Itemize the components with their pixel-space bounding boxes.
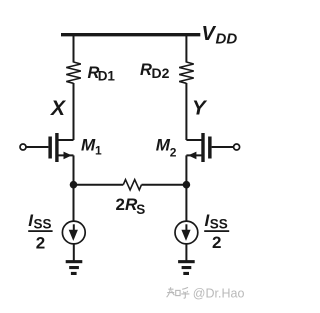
svg-text:1: 1 (95, 144, 102, 158)
svg-text:2R: 2R (116, 195, 138, 214)
svg-text:X: X (50, 97, 67, 120)
svg-text:R: R (140, 61, 152, 79)
svg-text:M: M (156, 136, 171, 155)
svg-text:Y: Y (192, 97, 208, 120)
svg-text:SS: SS (34, 217, 52, 232)
svg-text:2: 2 (170, 146, 177, 160)
svg-text:D2: D2 (152, 65, 170, 81)
svg-text:2: 2 (36, 234, 45, 253)
svg-text:2: 2 (212, 233, 221, 252)
svg-text:SS: SS (210, 217, 228, 232)
svg-text:@Dr.Hao: @Dr.Hao (193, 287, 245, 301)
svg-text:V: V (202, 23, 217, 45)
svg-text:DD: DD (216, 30, 238, 47)
svg-text:M: M (81, 136, 96, 155)
svg-text:D1: D1 (98, 69, 116, 84)
svg-text:S: S (136, 202, 145, 217)
